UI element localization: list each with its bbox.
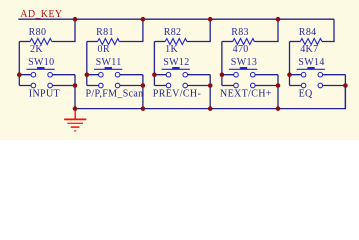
resistor R80: [19, 19, 75, 55]
R82 right lead and wire up to rail: [187, 19, 210, 41]
SW12 pin circle: [166, 72, 171, 77]
SW10 pin circle: [48, 72, 53, 77]
R84 body zigzag: [300, 39, 322, 45]
wire: SW10 right pins down to ground rail: [74, 75, 76, 109]
svg-text:R83: R83: [231, 27, 249, 38]
R80 body zigzag: [30, 39, 52, 45]
node: top rail junction 2: [141, 17, 146, 22]
node: ground rail junction 4: [276, 106, 281, 111]
R82 body zigzag: [165, 39, 187, 45]
SW11 button: [105, 67, 112, 69]
wire: SW13 right pins down to ground rail: [277, 75, 279, 109]
SW14 pin stubs left: [290, 75, 302, 86]
wire: R83 left down to SW13: [221, 42, 223, 86]
svg-text:1K: 1K: [165, 44, 178, 55]
SW10 pin circle: [31, 72, 36, 77]
SW11 pin circle: [115, 83, 120, 88]
SW12 pin circle: [183, 83, 188, 88]
SW12 actuator bar: [162, 68, 190, 70]
resistor R84: [290, 19, 335, 55]
node: SW13 bottom-right pin junction: [276, 83, 281, 88]
SW12 pin stubs right: [188, 75, 211, 86]
SW13 pin stubs left: [222, 75, 234, 86]
svg-text:INPUT: INPUT: [29, 88, 60, 99]
SW13 button: [240, 67, 247, 69]
SW12 button: [172, 67, 179, 69]
node: ground rail junction 3: [208, 106, 213, 111]
SW14 pin circle: [318, 83, 323, 88]
svg-text:AD_KEY: AD_KEY: [20, 9, 62, 20]
wire: SW12 right pins down to ground rail: [209, 75, 211, 109]
SW10 pin circle: [31, 83, 36, 88]
node: SW12 top-left pin junction: [152, 72, 157, 77]
SW14 button: [307, 67, 314, 69]
SW12 pin circle: [183, 72, 188, 77]
node: SW12 bottom-right pin junction: [208, 83, 213, 88]
R82 left lead: [154, 41, 165, 43]
svg-text:SW14: SW14: [298, 57, 324, 68]
svg-text:0R: 0R: [98, 44, 110, 55]
svg-text:EQ: EQ: [299, 88, 313, 99]
svg-text:R81: R81: [96, 27, 114, 38]
SW10 button: [37, 67, 44, 69]
SW14 actuator bar: [297, 68, 325, 70]
switch SW13: [222, 57, 278, 88]
svg-text:4K7: 4K7: [300, 44, 318, 55]
svg-text:R82: R82: [164, 27, 182, 38]
R84 left lead: [290, 41, 301, 43]
SW14 pin circle: [301, 72, 306, 77]
SW14 pin stubs right: [323, 75, 346, 86]
switch SW10: [19, 57, 75, 88]
wire: SW14 right pins down to ground rail: [344, 75, 346, 109]
SW10 actuator bar: [27, 68, 55, 70]
svg-text:2K: 2K: [30, 44, 43, 55]
SW11 pin circle: [115, 72, 120, 77]
SW13 pin circle: [251, 83, 256, 88]
wire: AD_KEY top rail: [18, 18, 334, 20]
node: ground rail junction 1: [73, 106, 78, 111]
SW11 pin stubs right: [120, 75, 143, 86]
SW14 pin circle: [318, 72, 323, 77]
resistor R82: [154, 19, 210, 55]
svg-text:SW11: SW11: [96, 57, 122, 68]
svg-text:SW12: SW12: [163, 57, 189, 68]
svg-text:NEXT/CH+: NEXT/CH+: [220, 88, 272, 99]
svg-text:R84: R84: [299, 27, 317, 38]
switch SW14: [290, 57, 346, 88]
R81 right lead and wire up to rail: [119, 19, 143, 41]
node: SW10 bottom-right pin junction: [73, 83, 78, 88]
SW11 pin stubs left: [87, 75, 99, 86]
ground: [64, 111, 86, 131]
SW10 pin stubs right: [53, 75, 76, 86]
SW13 actuator bar: [229, 68, 257, 70]
svg-text:SW13: SW13: [231, 57, 257, 68]
node: top rail junction 3: [208, 17, 213, 22]
R83 body zigzag: [233, 39, 255, 45]
switch SW12: [154, 57, 210, 88]
SW13 pin stubs right: [255, 75, 278, 86]
svg-text:R80: R80: [29, 27, 47, 38]
wire: R82 left down to SW12: [153, 42, 155, 86]
node: SW11 bottom-right pin junction: [141, 83, 146, 88]
SW10 pin circle: [48, 83, 53, 88]
SW14 pin circle: [301, 83, 306, 88]
wire: SW11 right pins down to ground rail: [142, 75, 144, 109]
R81 left lead: [87, 41, 98, 43]
SW11 pin circle: [99, 83, 104, 88]
wire: R81 left down to SW11: [86, 42, 88, 86]
SW13 pin circle: [234, 83, 239, 88]
node: ground rail junction 2: [141, 106, 146, 111]
SW11 pin circle: [99, 72, 104, 77]
wire: R80 left down to SW10: [18, 42, 20, 86]
svg-text:P/P,FM_Scan: P/P,FM_Scan: [86, 88, 144, 99]
R80 left lead: [19, 41, 30, 43]
SW13 pin circle: [234, 72, 239, 77]
svg-text:470: 470: [233, 44, 249, 55]
wire: R84 left down to SW14: [289, 42, 291, 86]
node: SW13 top-left pin junction: [220, 72, 225, 77]
resistor R81: [87, 19, 143, 55]
node: SW14 top-left pin junction: [287, 72, 292, 77]
node: SW11 top-left pin junction: [85, 72, 90, 77]
SW10 pin stubs left: [19, 75, 31, 86]
svg-text:SW10: SW10: [28, 57, 54, 68]
SW12 pin stubs left: [154, 75, 166, 86]
node: SW10 top-left pin junction: [17, 72, 22, 77]
node: top rail junction 4: [276, 17, 281, 22]
R83 left lead: [222, 41, 233, 43]
node: top rail junction 1: [73, 17, 78, 22]
SW11 actuator bar: [94, 68, 122, 70]
wire: ground rail: [75, 86, 345, 109]
R80 right lead and wire up to rail: [52, 19, 75, 41]
R83 right lead and wire up to rail: [254, 19, 278, 41]
resistor R83: [222, 19, 278, 55]
switch SW11: [87, 57, 143, 88]
svg-text:PREV/CH-: PREV/CH-: [153, 88, 201, 99]
SW12 pin circle: [166, 83, 171, 88]
R84 right lead and wire up to rail: [322, 19, 334, 41]
SW13 pin circle: [251, 72, 256, 77]
node: SW14 bottom-right pin junction: [343, 83, 348, 88]
R81 body zigzag: [98, 39, 120, 45]
